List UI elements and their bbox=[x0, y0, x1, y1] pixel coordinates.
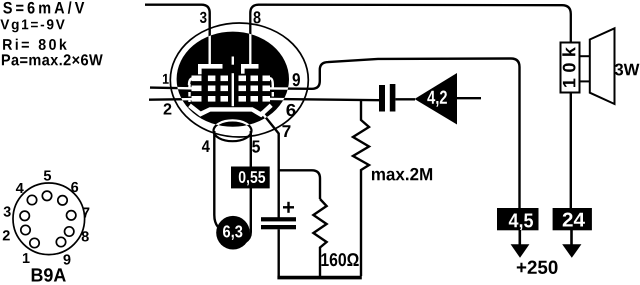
base pin 7 bbox=[67, 211, 76, 220]
supply arrow right bbox=[562, 230, 581, 258]
wire junction pin7 to cathode resistor bbox=[279, 170, 320, 199]
signal source output stub bbox=[457, 97, 481, 99]
tube V1 inner disc bbox=[177, 32, 289, 127]
resistor R1 160 ohm bbox=[313, 199, 326, 277]
base pin 2 bbox=[21, 225, 30, 234]
base pin label 6 bbox=[71, 182, 78, 192]
pin label 8 bbox=[254, 11, 261, 23]
base pin 3 bbox=[20, 211, 29, 220]
pin label 2 bbox=[164, 103, 172, 114]
wire pin 5 through current label bbox=[246, 131, 251, 242]
heater current label 0,55 bbox=[231, 167, 270, 189]
base pin label 4 bbox=[16, 183, 24, 193]
label B9A bbox=[32, 268, 66, 282]
pin label 1 bbox=[163, 74, 169, 84]
label 160 ohm bbox=[321, 253, 358, 266]
pin label 4 bbox=[202, 140, 210, 152]
base pin 1 bbox=[30, 238, 39, 247]
grid end rod right bbox=[270, 78, 273, 100]
wire pin 2 stub bbox=[149, 98, 196, 101]
base pin label 3 bbox=[4, 206, 11, 216]
anode plate right (pentode section) bbox=[241, 64, 259, 74]
loudspeaker LS bbox=[580, 28, 615, 104]
label +250 bbox=[517, 261, 558, 275]
current label 24 bbox=[553, 208, 592, 230]
pin label 3 bbox=[200, 12, 207, 23]
wire pin 1 stub bbox=[150, 86, 196, 89]
signal source triangle 4,2 bbox=[415, 73, 458, 125]
wire transformer to current label 24 bbox=[570, 93, 572, 209]
ground rail bbox=[277, 276, 361, 280]
heater voltage label 6,3 bbox=[216, 216, 250, 250]
base pin label 7 bbox=[83, 208, 90, 218]
pin label 7 bbox=[282, 125, 290, 137]
electrolytic capacitor C2 bbox=[261, 202, 296, 277]
label 3W bbox=[615, 64, 640, 76]
base pin label 5 bbox=[44, 171, 51, 181]
base pin label 1 bbox=[23, 253, 30, 263]
triode grid dashes bbox=[192, 76, 229, 102]
resistor R2 max.2M grid leak bbox=[353, 101, 369, 276]
wire pin 4 to heater supply bbox=[214, 131, 218, 227]
label max.2M bbox=[372, 168, 432, 181]
base pin 8 bbox=[65, 227, 74, 236]
cathode bbox=[190, 105, 272, 114]
base pin label 2 bbox=[3, 230, 10, 240]
pin label 5 bbox=[252, 141, 260, 153]
pin label 6 bbox=[286, 104, 295, 116]
base pin 9 bbox=[56, 237, 65, 246]
supply arrow left bbox=[511, 230, 530, 258]
base pin 4 bbox=[27, 195, 36, 204]
coupling capacitor C1 bbox=[379, 84, 415, 112]
heater bbox=[214, 120, 252, 141]
grid end rod left bbox=[189, 78, 193, 102]
wire pin 9 screen grid to current label 4,5 bbox=[270, 59, 520, 210]
pin label 9 bbox=[293, 73, 300, 86]
anode plate left (triode section) bbox=[198, 64, 223, 74]
center shield line bbox=[232, 57, 234, 107]
base pin 5 bbox=[42, 191, 51, 200]
wire pin 8 to output transformer bbox=[250, 5, 571, 65]
wire pin 3 to top stub bbox=[145, 5, 210, 65]
output transformer 10k bbox=[561, 43, 580, 93]
pentode grid dashes bbox=[239, 76, 271, 102]
parameter text Vg1=-9V bbox=[0, 19, 64, 32]
current label 4,5 bbox=[497, 208, 539, 230]
base pin 6 bbox=[58, 196, 67, 205]
wire pin 7 cathode down bbox=[261, 112, 279, 218]
parameter text Ri=80k bbox=[3, 39, 67, 50]
B9A base outline bbox=[13, 183, 85, 255]
base pin label 8 bbox=[82, 231, 89, 241]
base pin label 9 bbox=[63, 254, 70, 264]
wire pin 6 control grid to coupling cap bbox=[270, 99, 380, 100]
tube V1 envelope bbox=[170, 23, 308, 137]
parameter text S=6mA/V bbox=[3, 1, 84, 13]
parameter text Pa=max.2x6W bbox=[2, 54, 103, 65]
